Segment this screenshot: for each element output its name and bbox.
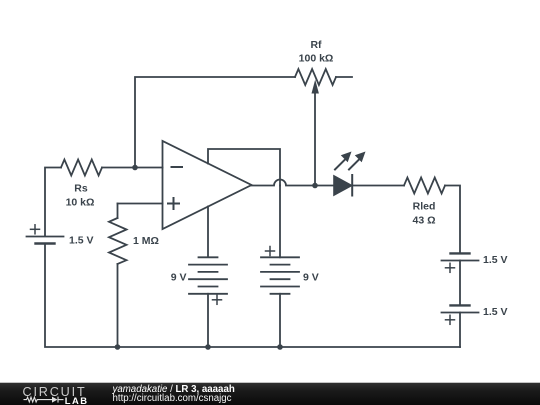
LED D1 xyxy=(334,176,352,195)
resistor R1 1 Mohm xyxy=(118,203,163,205)
wire V4 to V5 xyxy=(459,261,461,306)
svg-text:1.5 V: 1.5 V xyxy=(483,254,508,266)
battery V1 1.5V left xyxy=(27,236,64,238)
node junction R1/rail xyxy=(115,344,121,350)
wire Rs left to battery corner xyxy=(102,167,163,169)
svg-text:LAB: LAB xyxy=(65,395,89,405)
svg-text:100 kΩ: 100 kΩ xyxy=(299,53,334,65)
op-amp U1 xyxy=(163,141,252,229)
wire V3 bottom to rail xyxy=(279,294,281,347)
op-amp V- pin wire to battery V2 xyxy=(207,207,209,258)
battery V3 9V right xyxy=(261,256,299,258)
svg-text:Rled: Rled xyxy=(413,201,436,213)
plus sign V1 xyxy=(31,225,40,234)
wire LED to Rled xyxy=(353,185,405,187)
node junction Rs/feedback xyxy=(132,165,138,171)
wire V2 bottom to rail xyxy=(207,294,209,347)
wiper arrow of Rf xyxy=(314,92,316,186)
wire V3 top segment xyxy=(279,186,281,258)
resistor Rs xyxy=(61,160,102,176)
plus sign V3 xyxy=(266,247,275,256)
resistor Rled xyxy=(404,178,445,194)
svg-text:Rs: Rs xyxy=(74,183,88,195)
node junction V3/rail xyxy=(277,344,283,350)
battery V4 1.5V right top xyxy=(451,252,470,254)
footer text line 2 xyxy=(113,394,232,403)
svg-text:Rf: Rf xyxy=(310,39,322,51)
battery V2 9V left xyxy=(199,256,218,258)
plus sign V5 xyxy=(446,315,455,324)
wire op-amp output with hop over V+ wire xyxy=(252,180,334,186)
wire top feedback horizontal xyxy=(135,77,295,168)
wire V1 bottom to rail xyxy=(45,244,118,348)
svg-text:1.5 V: 1.5 V xyxy=(483,306,508,318)
footer text line 1 xyxy=(113,385,235,394)
op-amp minus symbol xyxy=(172,166,183,168)
wire Rf right stub xyxy=(336,76,352,78)
footer bar xyxy=(0,383,540,405)
footer divider xyxy=(0,382,540,383)
plus sign V2 xyxy=(213,295,222,304)
node junction output/wiper xyxy=(312,183,318,189)
plus sign V4 xyxy=(446,263,455,272)
battery V5 1.5V right bottom xyxy=(451,304,470,306)
svg-text:9 V: 9 V xyxy=(171,272,187,284)
svg-text:1.5 V: 1.5 V xyxy=(69,235,94,247)
op-amp V+ pin wire over to battery V3 xyxy=(208,149,280,186)
potentiometer Rf xyxy=(295,69,336,85)
op-amp plus symbol xyxy=(168,198,179,209)
CircuitLab logo xyxy=(10,383,110,405)
svg-text:43 Ω: 43 Ω xyxy=(412,215,435,227)
svg-text:9 V: 9 V xyxy=(303,272,319,284)
wire V5 bottom to rail xyxy=(459,313,461,348)
wire bottom rail xyxy=(118,346,461,348)
wire left vertical to battery V1 xyxy=(45,168,61,237)
LED arrows xyxy=(335,152,366,170)
wire Rled to right column xyxy=(445,186,460,254)
svg-text:10 kΩ: 10 kΩ xyxy=(66,197,95,209)
node junction V2/rail xyxy=(205,344,211,350)
svg-text:1 MΩ: 1 MΩ xyxy=(133,235,159,247)
